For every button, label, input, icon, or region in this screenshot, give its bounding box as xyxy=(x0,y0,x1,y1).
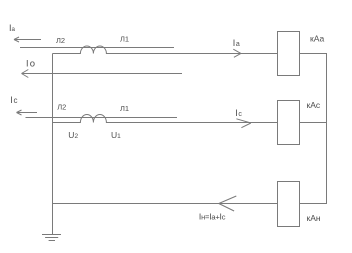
svg-text:Л1: Л1 xyxy=(120,104,129,113)
svg-text:кАн: кАн xyxy=(307,213,321,223)
svg-text:кАс: кАс xyxy=(307,100,321,110)
svg-text:Iо: Iо xyxy=(26,58,35,69)
svg-text:Л2: Л2 xyxy=(56,36,65,45)
svg-text:U1: U1 xyxy=(111,130,121,140)
svg-text:Iс: Iс xyxy=(10,95,17,105)
svg-text:U2: U2 xyxy=(68,130,78,140)
svg-text:Л2: Л2 xyxy=(57,103,66,112)
svg-text:Л1: Л1 xyxy=(120,34,129,43)
svg-text:Iа: Iа xyxy=(9,23,16,33)
svg-text:кАа: кАа xyxy=(310,33,324,43)
svg-text:Iс: Iс xyxy=(235,108,242,118)
svg-text:Iн=Iа+Iс: Iн=Iа+Iс xyxy=(199,211,226,221)
svg-text:Iа: Iа xyxy=(233,38,240,48)
